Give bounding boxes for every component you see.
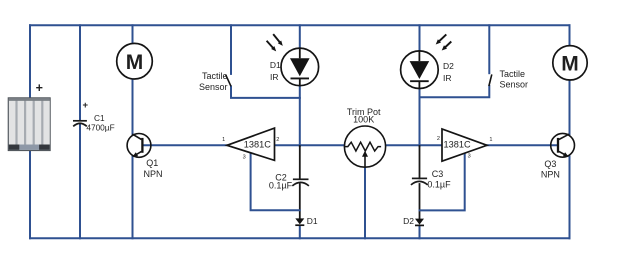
wire trim pot to U2 pin 2 (386, 144, 442, 146)
wire SW2 branch upper (488, 25, 490, 73)
svg-text:0.1µF: 0.1µF (269, 181, 293, 191)
wire M2 to Q3 collector (569, 80, 571, 136)
svg-text:1381C: 1381C (244, 140, 271, 150)
svg-text:2: 2 (437, 136, 440, 142)
wire SW1 branch upper (230, 25, 232, 74)
wire Q3 emitter to bottom rail (569, 157, 571, 239)
transistor Q1 (127, 134, 151, 158)
capacitor C2 (292, 179, 309, 186)
motor M1 (117, 43, 153, 79)
wire C1 branch lower (79, 124, 81, 238)
svg-text:Sensor: Sensor (199, 82, 228, 92)
wire M1 to Q1 collector (132, 79, 134, 135)
capacitor C3 (411, 178, 428, 185)
svg-text:M: M (561, 52, 579, 75)
solar panel PV1 (8, 98, 50, 151)
svg-text:3: 3 (243, 154, 246, 160)
tactile sensor switch SW2 (489, 74, 492, 86)
tactile sensor switch SW1 (226, 75, 231, 87)
wire Q1 base to U1 pin 1 (143, 144, 228, 146)
svg-text:1: 1 (489, 137, 492, 143)
svg-text:3: 3 (468, 153, 471, 159)
IC U2 1381C (442, 129, 487, 161)
wire C2 to diode D1 (299, 184, 301, 218)
svg-text:2: 2 (276, 137, 279, 143)
trim pot R1 (344, 126, 385, 167)
wire U1 pin 2 to trim pot (275, 144, 345, 146)
wire trim pot wiper to bottom rail (364, 167, 366, 238)
wire diode D2 to bottom rail (419, 226, 421, 239)
svg-text:Sensor: Sensor (500, 80, 529, 90)
wire D2 IR branch upper (419, 25, 421, 50)
wire U2 pin 3 route (420, 153, 465, 210)
D1 incident light arrow b (267, 41, 274, 49)
svg-text:D2: D2 (403, 216, 414, 226)
wire U1 pin 3 route (251, 153, 300, 210)
IR photodiode D1 (281, 48, 319, 86)
svg-text:+: + (83, 100, 89, 111)
wire diode D1 to bottom rail (299, 226, 301, 239)
IC U1 1381C (227, 128, 275, 160)
wire M2 branch from top rail (569, 25, 571, 46)
wire C1 branch upper (79, 25, 81, 120)
wire D1 IR branch upper (299, 25, 301, 48)
svg-text:D1: D1 (307, 216, 318, 226)
diode D2 (415, 219, 424, 226)
D2 incident light arrow a (436, 34, 452, 50)
svg-text:Tactile: Tactile (500, 69, 526, 79)
wire bottom rail (30, 237, 570, 239)
svg-text:IR: IR (270, 72, 279, 82)
svg-text:IR: IR (443, 73, 452, 83)
wire D2 IR cathode down to node (419, 89, 421, 146)
wire C3 to diode D2 (419, 184, 421, 218)
wire node to C2 lead (299, 146, 301, 178)
svg-text:1: 1 (222, 137, 225, 143)
wire SW2 lower to D2 node (420, 86, 490, 97)
diode D1 (295, 218, 304, 225)
svg-text:M: M (126, 51, 144, 74)
svg-text:D1: D1 (270, 60, 281, 70)
wire SW1 lower to D1 node (231, 87, 300, 98)
wire top rail (30, 24, 570, 26)
svg-text:0.1µF: 0.1µF (427, 179, 451, 189)
D1 incident light arrow a (267, 34, 283, 51)
svg-text:100K: 100K (353, 114, 374, 124)
motor M2 (553, 46, 587, 80)
svg-text:C3: C3 (432, 169, 444, 179)
wire left rail (29, 25, 31, 238)
transistor Q3 (551, 133, 575, 157)
svg-text:Tactile: Tactile (202, 71, 228, 81)
IR photodiode D2 (401, 51, 439, 89)
svg-text:D2: D2 (443, 61, 454, 71)
svg-text:Q3: Q3 (544, 159, 556, 169)
D2 incident light arrow b (444, 42, 451, 49)
svg-text:NPN: NPN (541, 170, 560, 180)
svg-text:NPN: NPN (143, 169, 162, 179)
svg-text:Q1: Q1 (146, 158, 158, 168)
wire M1 branch from top rail (132, 25, 134, 44)
capacitor C1 (73, 121, 87, 127)
wire D1 IR cathode down to node (299, 86, 301, 146)
wire node to C3 lead (419, 146, 421, 178)
svg-text:+: + (36, 81, 43, 95)
svg-text:1381C: 1381C (444, 140, 471, 150)
svg-text:4700µF: 4700µF (86, 123, 114, 133)
wire Q1 emitter to bottom rail (132, 156, 134, 238)
wire U2 pin 1 to Q3 base (487, 144, 558, 146)
